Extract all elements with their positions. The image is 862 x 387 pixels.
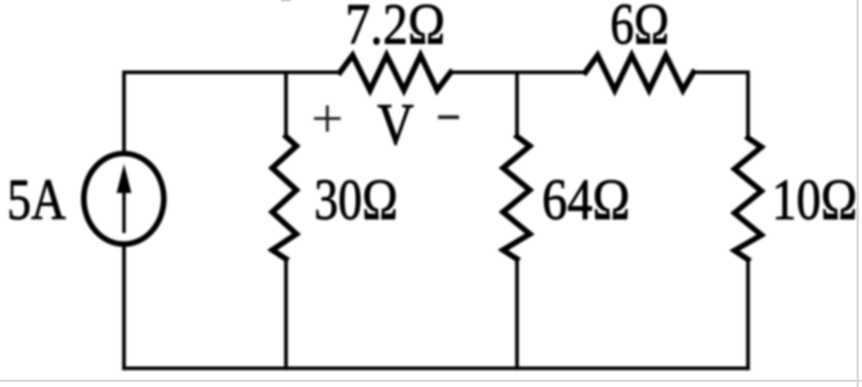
svg-text:6Ω: 6Ω [610, 0, 669, 56]
resistor R4 6ohm (horizontal) [585, 55, 693, 90]
wire: top-left from source top to node A [124, 72, 286, 150]
svg-text:30Ω: 30Ω [314, 167, 398, 232]
svg-text:64Ω: 64Ω [542, 167, 630, 232]
wire: R3 bottom to bottom rail [515, 259, 519, 368]
card border frame (decorative) [857, 0, 859, 387]
wire: R1 right lead to node B [451, 70, 517, 74]
wire: node A to R1 left lead [286, 70, 340, 74]
wire: R5 bottom to bottom rail [746, 260, 750, 369]
current source I1 arrow [117, 164, 132, 233]
svg-text:7.2Ω: 7.2Ω [345, 0, 445, 56]
resistor R2 30ohm (vertical) [272, 137, 296, 260]
current source I1 circle [84, 154, 164, 245]
resistor R1 7.2ohm (horizontal) [340, 55, 451, 90]
wire: R2 bottom to bottom rail [284, 259, 288, 368]
resistor R3 64ohm (vertical) [503, 137, 530, 260]
resistor R5 10ohm (vertical) [735, 138, 762, 260]
label: voltage V minus sign [438, 115, 459, 119]
svg-text:V: V [377, 91, 414, 157]
wire: node B down to R3 top [515, 72, 519, 136]
wire: source bottom to bottom rail [122, 247, 126, 368]
svg-text:5A: 5A [7, 167, 66, 232]
wire: node B to R4 left lead [517, 70, 585, 74]
wire: bottom rail [124, 366, 748, 370]
label: voltage V plus sign [314, 105, 341, 131]
wire: R4 right lead to top-right corner down to R5 top [693, 72, 748, 138]
svg-text:10Ω: 10Ω [772, 167, 857, 232]
wire: node A down to R2 top [284, 72, 288, 136]
